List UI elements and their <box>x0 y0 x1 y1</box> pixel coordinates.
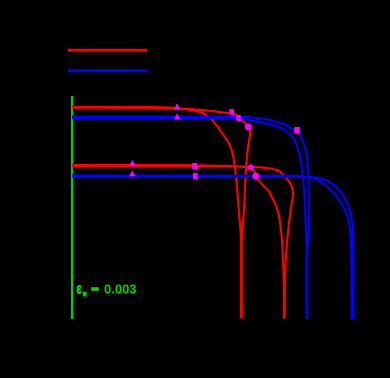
marker triangle lower red <box>129 160 136 166</box>
red curve C lower early bend <box>72 165 284 319</box>
marker circle lower red <box>248 164 254 170</box>
marker square lower blue <box>193 173 198 179</box>
blue curve F lower late bend <box>72 177 353 319</box>
blue curve H upper late bend <box>72 117 309 319</box>
svg-text:0.003: 0.003 <box>104 281 137 296</box>
legend line red <box>68 49 147 52</box>
marker triangle upper red <box>174 103 180 109</box>
marker square upper red <box>229 109 234 115</box>
marker circle lower blue <box>252 173 259 180</box>
blue curve E lower early bend <box>72 175 352 319</box>
marker triangle upper blue <box>174 113 180 119</box>
blue curve G upper early bend <box>72 118 307 318</box>
red curve A upper steep <box>72 107 241 319</box>
marker square upper blue <box>236 115 240 121</box>
marker triangle lower blue <box>129 171 136 177</box>
legend line blue <box>68 69 147 72</box>
marker square lower red <box>192 163 197 169</box>
marker circle upper red <box>245 123 252 130</box>
red curve B upper marker curve <box>72 108 250 319</box>
svg-text:ε: ε <box>76 280 82 297</box>
red curve D lower late bend <box>72 166 293 319</box>
green annotation epsilon_c = 0.003 <box>76 280 136 297</box>
green vertical line <box>71 96 73 319</box>
marker circle upper blue <box>294 127 300 134</box>
